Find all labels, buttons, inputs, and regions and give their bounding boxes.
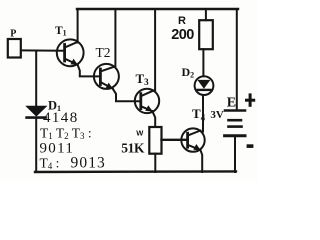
- wire T1 emitter to T2 base: [78, 65, 100, 77]
- diode D1 (4148): [25, 106, 47, 118]
- wire T3 emitter to potentiometer W: [152, 111, 155, 127]
- transistor T2: [94, 64, 119, 89]
- transistor T3: [135, 89, 159, 113]
- transistor T1: [57, 39, 84, 66]
- wire P to T1 base: [22, 49, 65, 51]
- label +: [245, 93, 255, 106]
- potentiometer W 51K: [149, 127, 161, 154]
- svg-text:W: W: [136, 128, 144, 137]
- battery E 3V: [225, 111, 245, 173]
- LED D2: [195, 76, 214, 95]
- wire T4 emitter to bottom rail: [200, 150, 202, 172]
- wire T2 collector riser: [114, 9, 116, 68]
- wire T1 collector riser: [77, 9, 79, 43]
- transistor T4: [181, 128, 204, 151]
- svg-text:P: P: [10, 29, 16, 40]
- wire D1 cathode to bottom rail: [35, 119, 37, 173]
- wire T4 collector to LED D2: [202, 96, 204, 132]
- wire T2 emitter to T3 base: [113, 89, 140, 102]
- touch plate P: [8, 39, 21, 58]
- resistor R: [199, 20, 213, 49]
- svg-text:9011: 9011: [40, 141, 75, 157]
- svg-text:200: 200: [171, 27, 194, 43]
- wire node to D1 anode: [35, 51, 37, 107]
- svg-text:R: R: [178, 15, 186, 27]
- bottom ground rail: [35, 170, 236, 173]
- wire W wiper to T4 base: [162, 139, 188, 141]
- wire T3 collector riser: [154, 9, 156, 91]
- svg-text:3V: 3V: [210, 109, 224, 121]
- wire W bottom to bottom rail: [154, 154, 156, 172]
- wire R bottom to LED anode: [202, 49, 204, 76]
- label -: [247, 144, 254, 148]
- svg-text:51K: 51K: [121, 141, 145, 156]
- wire R top stub: [205, 9, 207, 20]
- svg-text:4148: 4148: [43, 110, 79, 126]
- svg-text:9013: 9013: [71, 154, 106, 171]
- svg-text:T2: T2: [96, 45, 111, 60]
- wire top supply rail: [77, 8, 238, 10]
- wire battery positive lead: [236, 9, 238, 110]
- svg-text:E: E: [227, 96, 236, 111]
